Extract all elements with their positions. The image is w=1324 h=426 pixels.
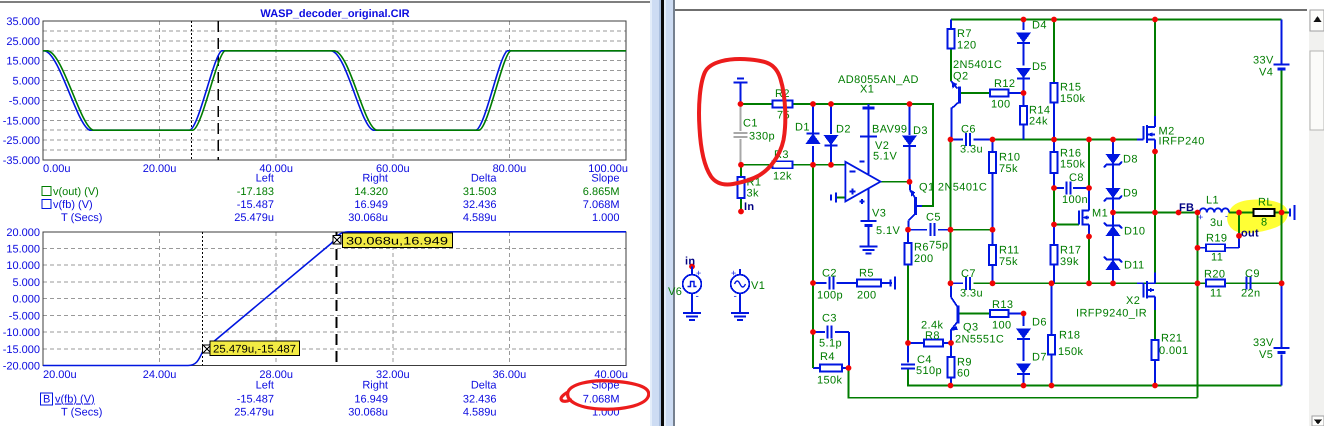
junction J10 xyxy=(1051,17,1057,23)
resistor R19 xyxy=(1206,244,1225,251)
svg-text:C5: C5 xyxy=(926,212,941,224)
svg-text:X1: X1 xyxy=(860,84,874,96)
x axis labels bottom plot xyxy=(43,369,628,381)
junction J17 xyxy=(1110,137,1116,143)
svg-text:80.00u: 80.00u xyxy=(493,163,527,175)
svg-text:0.000: 0.000 xyxy=(12,294,40,306)
junction J14 xyxy=(990,137,996,143)
transistor Q2 2N5401C xyxy=(951,81,958,89)
junction J15 xyxy=(1051,137,1057,143)
wire column C3/R4 right xyxy=(848,332,850,368)
wire column M2/X2/R21 xyxy=(1154,20,1156,117)
svg-text:30.068u,16.949: 30.068u,16.949 xyxy=(346,236,448,248)
svg-text:16.949: 16.949 xyxy=(354,199,388,211)
right scrollbar xyxy=(1309,11,1324,426)
wire M1 gate xyxy=(1054,224,1079,226)
svg-text:WASP_decoder_original.CIR: WASP_decoder_original.CIR xyxy=(260,8,409,20)
svg-text:-5.000: -5.000 xyxy=(9,95,40,107)
svg-text:V1: V1 xyxy=(751,280,765,292)
svg-text:-15.487: -15.487 xyxy=(237,394,274,406)
wire column node1 left xyxy=(812,104,814,133)
junction J37 xyxy=(1049,280,1055,286)
svg-text:-: - xyxy=(734,291,737,302)
wire top rail xyxy=(951,19,1282,21)
svg-text:D7: D7 xyxy=(1032,352,1047,364)
svg-text:R15: R15 xyxy=(1060,82,1081,94)
svg-text:R11: R11 xyxy=(999,245,1020,257)
junction J12 xyxy=(1021,90,1027,96)
svg-text:R17: R17 xyxy=(1060,245,1081,257)
wire column R1/C1 xyxy=(740,165,742,177)
cursor left (dotted) bottom plot xyxy=(202,232,204,366)
junction J29 xyxy=(1236,210,1242,216)
svg-text:+: + xyxy=(731,268,736,278)
capacitor C7 xyxy=(965,277,967,290)
resistor R2 xyxy=(773,101,793,108)
svg-text:R8: R8 xyxy=(925,330,940,342)
red annotation circle around C1 xyxy=(699,59,785,184)
ground above C1 xyxy=(740,83,742,104)
svg-text:R6: R6 xyxy=(914,242,929,254)
wire column R15/R16/R17 xyxy=(1053,20,1055,84)
svg-text:32.436: 32.436 xyxy=(463,199,497,211)
svg-text:R7: R7 xyxy=(957,28,972,40)
svg-text:5.000: 5.000 xyxy=(12,76,40,88)
ground below V3 xyxy=(859,245,877,247)
battery V2 xyxy=(867,104,869,108)
wire row R19 xyxy=(1198,247,1207,249)
trace v(fb) blue top plot xyxy=(43,51,626,130)
tie at RL right xyxy=(1294,205,1296,220)
junction J22 xyxy=(1086,185,1092,191)
yellow value tag left cursor xyxy=(210,341,299,355)
svg-text:22n: 22n xyxy=(1241,288,1261,300)
svg-text:T (Secs): T (Secs) xyxy=(61,212,102,224)
svg-text:25.479u: 25.479u xyxy=(234,212,274,224)
wire column R6/C4 xyxy=(907,230,909,243)
gridlines xyxy=(43,21,626,160)
svg-text:C7: C7 xyxy=(961,268,976,280)
resistor R13 xyxy=(990,310,1009,317)
junction J44 xyxy=(948,340,954,346)
svg-text:3k: 3k xyxy=(747,188,760,200)
junction J13 xyxy=(948,137,954,143)
wire row R4 xyxy=(813,367,820,369)
svg-text:Q1 2N5401C: Q1 2N5401C xyxy=(919,182,987,194)
svg-text:510p: 510p xyxy=(916,365,942,377)
table 1 row v(fb) xyxy=(42,200,51,209)
svg-text:+: + xyxy=(696,268,701,278)
svg-text:V6: V6 xyxy=(668,286,682,298)
tie at R5 right xyxy=(894,277,896,290)
svg-text:0.00u: 0.00u xyxy=(43,163,71,175)
junction J19 xyxy=(948,227,954,233)
svg-text:D6: D6 xyxy=(1032,317,1047,329)
svg-text:-17.183: -17.183 xyxy=(237,186,274,198)
junction J43 xyxy=(905,340,911,346)
resistor R21 xyxy=(1152,340,1159,360)
diode D1 xyxy=(807,134,820,143)
svg-text:C2: C2 xyxy=(822,268,837,280)
junction J28 xyxy=(1195,210,1201,216)
junction J30 xyxy=(1279,210,1285,216)
svg-text:5.1V: 5.1V xyxy=(876,225,900,237)
resistor R5 xyxy=(857,280,881,287)
gridlines xyxy=(43,232,626,366)
junction J46 xyxy=(1021,383,1027,389)
svg-text:30.068u: 30.068u xyxy=(348,212,388,224)
resistor R4 xyxy=(820,365,842,372)
svg-text:-15.487: -15.487 xyxy=(237,199,274,211)
svg-text:RL: RL xyxy=(1258,197,1273,209)
svg-text:10.000: 10.000 xyxy=(6,260,40,272)
svg-text:Left: Left xyxy=(256,380,274,392)
cursor left (dotted) top plot xyxy=(191,21,193,160)
svg-text:0.001: 0.001 xyxy=(1159,345,1189,357)
junction J41 xyxy=(1279,280,1285,286)
svg-text:D9: D9 xyxy=(1123,188,1138,200)
svg-text:3u: 3u xyxy=(1210,217,1223,229)
transistor Q3 2N5551C xyxy=(951,297,957,306)
wire row C2/R5 xyxy=(813,282,827,284)
svg-text:60: 60 xyxy=(957,368,970,380)
wire column M1 xyxy=(1088,140,1090,189)
svg-text:in: in xyxy=(685,256,695,268)
svg-text:D4: D4 xyxy=(1032,20,1047,32)
diode D6 xyxy=(1017,329,1030,338)
svg-text:V3: V3 xyxy=(872,208,886,220)
svg-text:15.000: 15.000 xyxy=(6,56,40,68)
svg-text:25.000: 25.000 xyxy=(6,36,40,48)
svg-text:150k: 150k xyxy=(817,375,843,387)
svg-text:12k: 12k xyxy=(773,171,792,183)
mosfet X2 IRFP9240_IR xyxy=(1137,282,1144,284)
svg-text:M1: M1 xyxy=(1092,208,1108,220)
svg-text:20.00u: 20.00u xyxy=(43,369,77,381)
schematic pane border xyxy=(673,0,675,426)
svg-text:R10: R10 xyxy=(999,152,1020,164)
pane divider strips xyxy=(650,0,661,426)
svg-text:3.3u: 3.3u xyxy=(960,288,983,300)
svg-text:25.479u,-15.487: 25.479u,-15.487 xyxy=(213,343,296,355)
mosfet M2 IRFP240 xyxy=(1137,139,1144,141)
zener D10 xyxy=(1107,227,1120,236)
window top border xyxy=(0,1,651,3)
svg-text:Delta: Delta xyxy=(471,380,498,392)
junction J25 xyxy=(1110,210,1116,216)
junction J27 xyxy=(1152,210,1158,216)
junction J3 xyxy=(828,101,834,107)
resistor R8 xyxy=(924,340,943,347)
ground below V1 xyxy=(739,293,741,313)
diode D4 xyxy=(1017,33,1030,42)
svg-text:150k: 150k xyxy=(1058,346,1084,358)
svg-text:100n: 100n xyxy=(1062,194,1088,206)
junction J45 xyxy=(948,383,954,389)
junction J26 xyxy=(1152,149,1158,155)
wire column right rail V4/V5 xyxy=(1281,20,1283,65)
junction J40 xyxy=(1195,280,1201,286)
svg-text:D5: D5 xyxy=(1032,61,1047,73)
node FB xyxy=(1176,210,1182,216)
node out xyxy=(1236,233,1242,239)
svg-text:15.000: 15.000 xyxy=(6,244,40,256)
wire row C7 xyxy=(951,282,964,284)
resistor R17 xyxy=(1051,245,1058,265)
junction J5 xyxy=(738,162,744,168)
svg-text:14.320: 14.320 xyxy=(354,186,388,198)
svg-text:IRFP240: IRFP240 xyxy=(1159,136,1205,148)
y axis labels top plot xyxy=(3,16,40,167)
svg-text:Q2: Q2 xyxy=(953,71,968,83)
junction J31 xyxy=(1195,245,1201,251)
svg-text:FB: FB xyxy=(1179,202,1194,214)
wire column zener chain xyxy=(1112,140,1114,155)
svg-text:D10: D10 xyxy=(1124,226,1145,238)
svg-text:3.3u: 3.3u xyxy=(960,144,983,156)
junction J7 xyxy=(828,162,834,168)
svg-text:D11: D11 xyxy=(1124,260,1145,272)
svg-text:D3: D3 xyxy=(913,125,928,137)
diode D5 xyxy=(1017,69,1030,78)
svg-text:-: - xyxy=(696,291,699,302)
junction J38 xyxy=(1086,280,1092,286)
junction J11 xyxy=(1152,17,1158,23)
svg-text:75k: 75k xyxy=(999,163,1018,175)
red annotation circle around Slope value xyxy=(561,381,649,409)
svg-text:D8: D8 xyxy=(1123,154,1138,166)
svg-text:-5.000: -5.000 xyxy=(9,310,40,322)
wire op-amp output xyxy=(881,181,911,183)
resistor R9 xyxy=(948,357,955,378)
svg-text:Right: Right xyxy=(362,173,388,185)
wire row C8 xyxy=(1054,187,1064,189)
wire row C3 xyxy=(813,331,825,333)
tie at op-amp +input xyxy=(835,193,837,203)
svg-text:R18: R18 xyxy=(1059,330,1080,342)
svg-text:8: 8 xyxy=(1261,217,1268,229)
resistor R10 xyxy=(989,152,996,173)
wire column Q2/Q3 spine xyxy=(950,20,952,30)
junction J35 xyxy=(948,280,954,286)
source V1 xyxy=(739,269,741,275)
trace v(out) green top plot xyxy=(43,51,626,130)
resistor R16 xyxy=(1051,152,1058,173)
junction J4 xyxy=(907,101,913,107)
junction J9 xyxy=(1021,17,1027,23)
capacitor C2 xyxy=(829,277,831,290)
junction J2 xyxy=(810,101,816,107)
junction J24 xyxy=(1086,234,1092,240)
cursor right (dashed) top plot xyxy=(217,21,219,160)
svg-text:R4: R4 xyxy=(820,351,835,363)
svg-text:R19: R19 xyxy=(1206,233,1227,245)
svg-text:33V: 33V xyxy=(1253,55,1274,67)
wire row R3 to op-amp xyxy=(741,164,772,166)
svg-text:36.00u: 36.00u xyxy=(493,369,527,381)
dual diode BAV99 D3 xyxy=(903,136,916,145)
svg-text:2N5401C: 2N5401C xyxy=(953,59,1002,71)
svg-text:L1: L1 xyxy=(1206,195,1219,207)
source V6 xyxy=(689,264,695,270)
junction J36 xyxy=(990,280,996,286)
resistor R3 xyxy=(773,161,793,168)
svg-text:R12: R12 xyxy=(994,78,1015,90)
junction J20 xyxy=(990,227,996,233)
svg-text:R13: R13 xyxy=(992,299,1013,311)
svg-text:D2: D2 xyxy=(836,124,851,136)
svg-text:5.1V: 5.1V xyxy=(873,151,897,163)
wire column out node xyxy=(1238,213,1240,237)
cursor marker left xyxy=(203,345,211,353)
svg-text:B: B xyxy=(43,394,50,406)
svg-text:C8: C8 xyxy=(1069,172,1084,184)
node In at R1 xyxy=(738,209,744,215)
svg-text:C1: C1 xyxy=(743,118,758,130)
resistor R11 xyxy=(989,245,996,265)
svg-text:C6: C6 xyxy=(961,124,976,136)
svg-text:Delta: Delta xyxy=(471,173,498,185)
capacitor C1 (disabled) xyxy=(740,104,742,131)
wire row C1/R2 xyxy=(741,103,773,105)
wire column R18 xyxy=(1051,283,1053,335)
junction J8 xyxy=(907,179,913,185)
svg-text:5.1p: 5.1p xyxy=(819,338,842,350)
wire bottom row 1 xyxy=(908,369,1282,386)
svg-text:R20: R20 xyxy=(1204,269,1225,281)
battery V4 xyxy=(1274,64,1290,66)
diode D2 xyxy=(825,136,838,145)
svg-text:AD8055AN_AD: AD8055AN_AD xyxy=(838,74,919,86)
yellow value tag right cursor xyxy=(343,233,453,247)
svg-text:4.589u: 4.589u xyxy=(463,212,497,224)
svg-text:Left: Left xyxy=(256,173,274,185)
svg-text:2N5551C: 2N5551C xyxy=(955,334,1004,346)
svg-text:v(fb) (V): v(fb) (V) xyxy=(53,199,93,211)
svg-text:In: In xyxy=(744,201,754,213)
svg-text:6.865M: 6.865M xyxy=(583,186,620,198)
table 2 row B v(fb) xyxy=(41,393,53,405)
mosfet M1 xyxy=(1078,211,1080,225)
svg-text:35.000: 35.000 xyxy=(6,16,40,28)
svg-text:33V: 33V xyxy=(1253,337,1274,349)
resistor R18 xyxy=(1048,335,1055,355)
battery V5 xyxy=(1274,347,1290,349)
wire row Q3 base / R13 xyxy=(960,313,991,315)
svg-text:-20.000: -20.000 xyxy=(3,361,40,373)
svg-text:v(fb) (V): v(fb) (V) xyxy=(55,394,95,406)
svg-text:V4: V4 xyxy=(1259,67,1273,79)
svg-text:V5: V5 xyxy=(1259,349,1273,361)
svg-text:150k: 150k xyxy=(1060,93,1086,105)
wire row C6 xyxy=(951,139,964,141)
junction J48 xyxy=(1152,383,1158,389)
svg-text:100: 100 xyxy=(992,320,1012,332)
svg-text:100: 100 xyxy=(991,99,1011,111)
svg-text:11: 11 xyxy=(1210,288,1222,300)
wire row Q2 base / R12 xyxy=(961,92,990,94)
svg-text:30.068u: 30.068u xyxy=(348,407,388,419)
cursor right (dashed) bottom plot xyxy=(336,232,338,366)
wire bottom row 2 xyxy=(849,368,1198,398)
capacitor C9 xyxy=(1245,277,1247,290)
capacitor C5 xyxy=(930,223,932,236)
zener D9 xyxy=(1107,189,1120,198)
junction J21 xyxy=(1051,185,1057,191)
y axis labels bottom plot xyxy=(3,227,40,373)
plot frame xyxy=(43,232,626,366)
battery V3 xyxy=(867,189,869,221)
plot frame xyxy=(43,21,626,160)
resistor R14 xyxy=(1020,106,1027,125)
svg-text:200: 200 xyxy=(914,253,934,265)
svg-text:16.949: 16.949 xyxy=(354,394,388,406)
trace v(fb) bottom plot xyxy=(43,232,626,366)
svg-text:20.000: 20.000 xyxy=(6,227,40,239)
svg-text:-25.000: -25.000 xyxy=(3,135,40,147)
svg-text:1.000: 1.000 xyxy=(592,212,620,224)
junction J6 xyxy=(810,162,816,168)
resistor RL (selected) xyxy=(1254,209,1275,216)
resistor R6 xyxy=(905,243,912,265)
junction J23 xyxy=(1051,222,1057,228)
svg-text:T (Secs): T (Secs) xyxy=(61,407,102,419)
svg-text:11: 11 xyxy=(1211,252,1223,264)
svg-text:5.000: 5.000 xyxy=(12,277,40,289)
ground below V6 xyxy=(691,293,693,313)
svg-text:7.068M: 7.068M xyxy=(583,199,620,211)
wire column D4/D5/R14 xyxy=(1023,20,1025,31)
wire column D3 xyxy=(909,104,911,135)
svg-text:75p: 75p xyxy=(929,240,949,252)
svg-text:200: 200 xyxy=(857,290,877,302)
svg-text:D1: D1 xyxy=(795,122,810,134)
capacitor C3 xyxy=(827,326,829,339)
junction J1 xyxy=(738,101,744,107)
junction J33 xyxy=(810,329,816,335)
svg-text:-35.000: -35.000 xyxy=(3,155,40,167)
svg-text:31.503: 31.503 xyxy=(463,186,497,198)
capacitor C4 xyxy=(901,364,915,366)
x axis labels top plot xyxy=(43,163,628,175)
junction J32 xyxy=(810,280,816,286)
junction J42 xyxy=(1021,311,1027,317)
capacitor C6 xyxy=(965,133,967,146)
svg-text:24k: 24k xyxy=(1029,116,1048,128)
svg-text:39k: 39k xyxy=(1060,256,1079,268)
svg-text:150k: 150k xyxy=(1060,159,1086,171)
resistor R20 xyxy=(1206,280,1225,287)
svg-text:out: out xyxy=(1241,228,1259,240)
svg-text:v(out) (V): v(out) (V) xyxy=(53,186,99,198)
table 1 header xyxy=(256,173,620,185)
zener D11 xyxy=(1107,261,1120,270)
resistor R1 xyxy=(738,177,745,198)
svg-text:120: 120 xyxy=(957,40,977,52)
junction J39 xyxy=(1110,280,1116,286)
capacitor C8 xyxy=(1065,182,1067,195)
zener D8 xyxy=(1107,155,1120,164)
resistor R7 xyxy=(948,29,955,49)
svg-text:X2: X2 xyxy=(1126,295,1140,307)
svg-text:-10.000: -10.000 xyxy=(3,327,40,339)
wire row C5 xyxy=(908,229,927,231)
svg-text:330p: 330p xyxy=(749,131,775,143)
resistor R12 xyxy=(990,90,1009,97)
svg-text:20.00u: 20.00u xyxy=(143,163,177,175)
wire column feedback xyxy=(1197,213,1199,398)
wire row R8 xyxy=(908,342,924,344)
